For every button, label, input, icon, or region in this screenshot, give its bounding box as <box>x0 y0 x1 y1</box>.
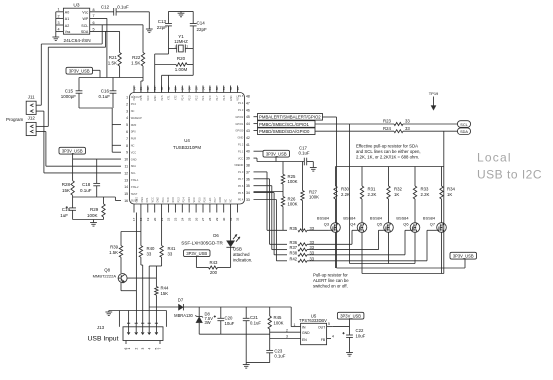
transistor Q8 MMBT2222A <box>93 268 127 284</box>
power tag 3P3V_USB top-left <box>66 67 100 77</box>
connector J13 pin arrows <box>127 323 158 334</box>
svg-text:3P3V_USB: 3P3V_USB <box>453 253 474 258</box>
wire VBUS column <box>148 266 150 323</box>
U5 pin 4 <box>327 334 334 338</box>
svg-text:56: 56 <box>188 87 192 91</box>
svg-text:62: 62 <box>146 87 150 91</box>
svg-text:GND: GND <box>219 197 222 203</box>
svg-text:GND: GND <box>238 136 244 140</box>
svg-text:J12: J12 <box>28 116 36 121</box>
svg-text:WAKEUP: WAKEUP <box>131 116 142 120</box>
capacitor C18 0.1uF <box>80 159 100 197</box>
svg-text:33: 33 <box>147 252 152 257</box>
svg-text:Vss: Vss <box>65 30 71 34</box>
svg-text:R38: R38 <box>289 250 297 255</box>
svg-text:60: 60 <box>160 87 164 91</box>
svg-text:GND: GND <box>230 95 233 101</box>
svg-text:DP0: DP0 <box>131 130 137 134</box>
wire crystal right rail <box>192 49 194 76</box>
wire D7 to U5 <box>183 307 291 327</box>
resistor R41 33 <box>160 213 176 267</box>
wire to U4 pin5 <box>112 124 121 126</box>
ground under R29 <box>90 220 97 227</box>
wire Q4 drain <box>361 232 363 273</box>
svg-text:P3.6: P3.6 <box>204 197 207 203</box>
svg-text:R41: R41 <box>168 246 176 251</box>
svg-text:Q4: Q4 <box>350 222 356 227</box>
wire SCL bottom row <box>350 263 416 265</box>
crystal Y1 12MHZ <box>169 34 194 52</box>
transistor Q6 BSS84 <box>396 216 419 233</box>
svg-text:EN: EN <box>302 338 307 342</box>
svg-text:R31: R31 <box>368 186 376 191</box>
svg-text:P1.1: P1.1 <box>238 149 244 153</box>
svg-text:1K: 1K <box>447 192 452 197</box>
svg-text:23: 23 <box>174 217 178 221</box>
svg-text:100K: 100K <box>274 321 284 326</box>
wire ground stub row <box>246 362 270 364</box>
svg-text:1000pF: 1000pF <box>61 94 77 99</box>
svg-text:R35: R35 <box>289 226 297 231</box>
net tag SCL <box>458 121 471 128</box>
connector J12 <box>26 116 48 136</box>
svg-text:27: 27 <box>201 217 205 221</box>
ground at C17 <box>310 168 317 172</box>
svg-text:51: 51 <box>222 87 226 91</box>
resistor R39 1.5K <box>109 232 123 274</box>
wire J11 pin2 to U4 pin12 <box>44 111 121 173</box>
svg-text:20: 20 <box>153 217 157 221</box>
svg-text:7: 7 <box>93 14 95 18</box>
ground at C12 <box>146 29 153 33</box>
svg-text:12MHZ: 12MHZ <box>174 39 188 44</box>
svg-text:8: 8 <box>93 8 95 12</box>
svg-text:1.5K: 1.5K <box>131 61 140 66</box>
title Local USB to I2C <box>477 151 542 182</box>
wire U3 WP to 3.3V <box>90 18 107 77</box>
wire U4 pin17 column <box>135 213 137 324</box>
U3 left pin ladder pins 1-4 <box>56 8 64 37</box>
wire U4 pin39 jog <box>254 158 258 161</box>
wire C19 R29 bottoms <box>73 219 104 221</box>
svg-text:MBRA130: MBRA130 <box>174 313 193 318</box>
ground bottom rail <box>243 363 250 369</box>
svg-text:A0: A0 <box>65 11 69 15</box>
svg-text:61: 61 <box>153 87 157 91</box>
svg-text:BSS84: BSS84 <box>343 216 356 221</box>
svg-text:25: 25 <box>187 217 191 221</box>
svg-text:200: 200 <box>210 270 218 275</box>
svg-text:49: 49 <box>236 87 240 91</box>
svg-text:2: 2 <box>57 14 59 18</box>
svg-text:SDA: SDA <box>131 164 137 168</box>
svg-text:15K: 15K <box>161 291 169 296</box>
svg-text:1uF: 1uF <box>60 213 68 218</box>
svg-text:P3.7: P3.7 <box>214 197 217 203</box>
resistor R31 2.2K <box>360 167 376 223</box>
net tag SDA <box>458 128 471 135</box>
wire XTAL1 to U4 <box>161 75 163 92</box>
svg-text:RXD: RXD <box>172 197 175 202</box>
svg-text:0.1uF: 0.1uF <box>299 151 310 156</box>
svg-text:PMBALERT/SMBALERT/GPIO2: PMBALERT/SMBALERT/GPIO2 <box>259 115 321 120</box>
wire R35 to gate <box>307 229 328 231</box>
svg-text:Local: Local <box>477 151 512 165</box>
svg-text:100K: 100K <box>288 202 298 207</box>
svg-text:26: 26 <box>194 217 198 221</box>
wire U4 pin43 to sda box <box>254 130 258 132</box>
svg-text:C20: C20 <box>225 316 233 321</box>
U3 right pin numbers 8,7,6,5 <box>93 8 95 32</box>
wire U4 pin44 to scl box <box>254 123 258 125</box>
wire Q7 drain <box>441 232 443 273</box>
svg-text:GND: GND <box>154 95 157 101</box>
svg-text:R42: R42 <box>289 256 297 261</box>
svg-text:C12: C12 <box>101 5 110 10</box>
wire ALERT drop <box>336 117 338 268</box>
wire R25 R26 tap to U4 <box>254 191 284 193</box>
svg-text:3P3V_USB: 3P3V_USB <box>62 148 83 153</box>
resistor R38 33 <box>289 250 314 256</box>
svg-text:R23: R23 <box>383 119 391 124</box>
wire gate Q6 <box>405 230 410 255</box>
svg-text:2.2K: 2.2K <box>368 192 377 197</box>
label Program <box>6 117 24 122</box>
wire R41 bottom row <box>149 265 161 267</box>
wire Q3 drain to ALERT row <box>335 232 337 268</box>
svg-text:50: 50 <box>229 87 233 91</box>
svg-text:3P3V_USB: 3P3V_USB <box>266 151 287 156</box>
wire SCL drop <box>349 124 351 264</box>
net label PMBC/SMBC/SCL/GPIO1 <box>258 121 316 128</box>
U5 pin 3 <box>270 335 301 339</box>
svg-text:TP19: TP19 <box>429 91 439 96</box>
svg-text:NC: NC <box>131 144 135 148</box>
svg-text:13: 13 <box>124 178 128 182</box>
capacitor C16 0.1uF <box>98 78 116 109</box>
wire gate Q3 <box>328 229 331 231</box>
note USB attached indication <box>233 247 252 263</box>
wire crystal top rail <box>169 10 194 12</box>
svg-text:P3.0: P3.0 <box>131 102 137 106</box>
svg-text:BSS84: BSS84 <box>396 216 409 221</box>
U4 right pins 48-33 <box>246 95 250 203</box>
svg-text:R30: R30 <box>341 186 349 191</box>
U3 pin labels inside <box>65 11 89 35</box>
svg-text:38: 38 <box>246 164 250 168</box>
wire bus left vertical B <box>47 47 49 126</box>
resistor R45 100K <box>268 307 284 363</box>
svg-text:37: 37 <box>246 170 250 174</box>
U4 left pin names <box>131 95 142 203</box>
capacitor C21 0.1uF <box>243 307 262 363</box>
capacitor C23 0.1uF <box>266 348 285 358</box>
svg-text:28: 28 <box>208 217 212 221</box>
svg-text:C17: C17 <box>299 145 307 150</box>
svg-text:P2.6: P2.6 <box>140 95 143 101</box>
svg-text:43: 43 <box>246 129 250 133</box>
svg-text:Effective pull-up resistor for: Effective pull-up resistor for SDA <box>356 144 418 149</box>
svg-text:TXD: TXD <box>167 197 170 202</box>
svg-text:TPS76333DBV: TPS76333DBV <box>299 318 327 323</box>
svg-text:46: 46 <box>246 108 250 112</box>
svg-text:SDA: SDA <box>460 130 468 134</box>
ground under C22 <box>346 353 353 357</box>
wire U4 pin45 to alert box <box>254 116 258 118</box>
svg-text:2: 2 <box>134 348 138 350</box>
svg-text:NC: NC <box>224 199 227 203</box>
svg-text:PMBC/SMBC/SCL/GPIO1: PMBC/SMBC/SCL/GPIO1 <box>259 122 310 127</box>
svg-text:64: 64 <box>132 87 136 91</box>
svg-text:41: 41 <box>246 143 250 147</box>
wire Q6 drain <box>414 232 416 263</box>
power tag 3P3V_USB u5 <box>337 312 364 326</box>
svg-text:2: 2 <box>126 102 128 106</box>
power tag 3P3V_USB right <box>450 252 477 268</box>
wire R42 to gate <box>307 260 427 262</box>
wire to U4 pin9 <box>112 151 121 153</box>
wire crystal left rail <box>155 49 169 93</box>
svg-text:19: 19 <box>146 217 150 221</box>
svg-text:16: 16 <box>124 199 128 203</box>
U4 top pin names <box>133 95 240 101</box>
svg-text:P0.4: P0.4 <box>238 198 244 202</box>
resistor R22 1.5K <box>131 53 145 78</box>
wire C12 to ground <box>116 12 149 29</box>
svg-text:6: 6 <box>93 21 95 25</box>
svg-text:SCL: SCL <box>81 24 88 28</box>
svg-text:VCC: VCC <box>151 197 154 202</box>
svg-text:0.1uF: 0.1uF <box>274 353 285 358</box>
svg-text:P2.3: P2.3 <box>188 95 191 101</box>
svg-text:WP: WP <box>83 17 89 21</box>
svg-text:PUR: PUR <box>131 137 137 141</box>
svg-text:0.1uF: 0.1uF <box>98 94 110 99</box>
svg-text:ALERT line can be: ALERT line can be <box>313 278 349 283</box>
svg-text:55: 55 <box>194 87 198 91</box>
svg-text:and SCL lines can be either op: and SCL lines can be either open, <box>356 149 421 154</box>
svg-text:30: 30 <box>222 217 226 221</box>
svg-text:C18: C18 <box>82 182 91 187</box>
connector J13 header <box>88 325 119 342</box>
svg-text:P1.3: P1.3 <box>238 108 244 112</box>
wire U3 Vcc to C12 <box>90 11 114 13</box>
svg-text:44: 44 <box>246 122 250 126</box>
svg-text:P2.7: P2.7 <box>133 95 136 101</box>
svg-text:3W: 3W <box>205 320 211 325</box>
wire U4 pin to R35 <box>254 172 288 230</box>
svg-text:Q5: Q5 <box>377 222 382 227</box>
svg-text:VCC: VCC <box>147 95 150 100</box>
svg-text:R33: R33 <box>421 186 429 191</box>
svg-text:6: 6 <box>124 348 128 350</box>
transistor Q3 BSS84 <box>317 216 340 233</box>
svg-text:VCC: VCC <box>193 197 196 202</box>
svg-text:53: 53 <box>208 87 212 91</box>
svg-text:22: 22 <box>167 217 171 221</box>
wire R38 to gate <box>307 254 405 256</box>
svg-text:R44: R44 <box>161 285 169 290</box>
note effective pull-up resistor <box>356 144 421 160</box>
capacitor C15 1000pF <box>61 78 83 109</box>
svg-text:32: 32 <box>236 217 240 221</box>
IC U3 24LC64-I/SN EEPROM <box>63 3 89 35</box>
wire J12 pin2 to U4 pin11 <box>46 132 121 167</box>
wire reset row to U4 pin16 <box>73 197 121 201</box>
power tag 3P3V_USB left <box>59 147 86 159</box>
svg-text:USB: USB <box>233 247 242 252</box>
wire U4 pin to R42 <box>254 200 288 261</box>
svg-text:XTAL2: XTAL2 <box>131 185 139 189</box>
resistor R36 33 <box>289 240 314 246</box>
connector J13 pin numbers <box>124 341 162 350</box>
svg-text:U3: U3 <box>73 3 79 9</box>
resistor R34 1K <box>440 167 456 223</box>
svg-text:Pull-up resistor for: Pull-up resistor for <box>313 273 348 278</box>
svg-text:NC: NC <box>230 199 233 203</box>
svg-text:D6: D6 <box>213 233 219 238</box>
svg-text:indication.: indication. <box>233 258 252 263</box>
svg-text:54: 54 <box>201 87 205 91</box>
wire R43 to LED <box>218 267 231 269</box>
svg-text:22pF: 22pF <box>157 25 168 30</box>
svg-text:15K: 15K <box>62 188 70 193</box>
IC U4 TUSB3210PM body <box>130 93 245 205</box>
svg-text:3P3V_USB: 3P3V_USB <box>186 251 207 256</box>
wire Q8 base to R44 <box>127 277 156 279</box>
svg-text:BSS84: BSS84 <box>370 216 383 221</box>
svg-text:P2.0: P2.0 <box>209 95 212 101</box>
capacitor C13 22pF <box>157 11 172 48</box>
svg-text:VREND: VREND <box>234 163 243 167</box>
wire R24 to SDA tag <box>403 130 458 132</box>
svg-text:100K: 100K <box>87 213 98 218</box>
svg-text:PMBD/SMBD/SDA/GPIO0: PMBD/SMBD/SDA/GPIO0 <box>259 129 310 134</box>
svg-text:24: 24 <box>181 217 185 221</box>
svg-text:1.5K: 1.5K <box>109 250 118 255</box>
svg-text:29: 29 <box>215 217 219 221</box>
wire 3.3V rail <box>79 77 143 79</box>
svg-text:40: 40 <box>246 150 250 154</box>
svg-text:TUSB3210PM: TUSB3210PM <box>173 145 201 150</box>
svg-text:GND: GND <box>302 331 310 335</box>
svg-text:C15: C15 <box>65 88 74 93</box>
wire ground row J13 <box>109 311 167 327</box>
svg-text:2.2K: 2.2K <box>421 192 430 197</box>
wire SDA net vertical <box>105 31 107 47</box>
svg-text:C13: C13 <box>158 19 167 24</box>
capacitor C22 10uF <box>342 327 365 353</box>
resistor R25 100K <box>281 162 297 192</box>
svg-text:switched on or off.: switched on or off. <box>313 284 348 289</box>
resistor R21 1.5K <box>108 53 122 78</box>
svg-text:BSS84: BSS84 <box>317 216 330 221</box>
resistor R28 15K <box>62 159 75 197</box>
wire gate Q7 <box>427 230 437 260</box>
svg-text:9: 9 <box>126 151 128 155</box>
U3 value label 24LC64-I/SN <box>64 38 91 43</box>
svg-text:Q8: Q8 <box>104 268 110 273</box>
wire U4 pin to R37 <box>254 186 288 250</box>
svg-text:0.1uF: 0.1uF <box>250 321 261 326</box>
wire U3 SDA to R21 <box>90 31 120 52</box>
svg-text:52: 52 <box>215 87 219 91</box>
svg-text:XTAL1: XTAL1 <box>131 178 139 182</box>
resistor R27 100K <box>301 162 319 231</box>
svg-text:SCL: SCL <box>131 171 137 175</box>
svg-text:A2: A2 <box>65 24 69 28</box>
svg-text:R24: R24 <box>383 126 391 131</box>
capacitor C19 1uF <box>60 197 76 220</box>
wire Q5 drain <box>388 232 390 263</box>
wire SDA drop <box>443 131 445 273</box>
svg-text:2.2K, 1K, or 2.2K//1K = 688 oh: 2.2K, 1K, or 2.2K//1K = 688 ohm. <box>356 155 419 160</box>
svg-text:0.1uF: 0.1uF <box>80 188 92 193</box>
svg-text:P1.0: P1.0 <box>238 170 244 174</box>
svg-text:C21: C21 <box>250 315 258 320</box>
svg-text:4: 4 <box>147 348 151 350</box>
svg-text:FB: FB <box>321 338 326 342</box>
wire 3.3V to U4 pin10 <box>73 158 121 160</box>
svg-text:63: 63 <box>139 87 143 91</box>
svg-text:XT2: XT2 <box>175 95 178 100</box>
svg-text:DM0: DM0 <box>131 123 137 127</box>
U4 left pins 1-16 <box>124 96 128 204</box>
transistor Q4 BSS84 <box>343 216 366 233</box>
svg-text:33: 33 <box>405 126 410 131</box>
LED D6 SSF-LXH305GD-TR <box>181 233 240 247</box>
zener diode D8 7.5V 3W <box>195 307 213 334</box>
svg-text:0.1uF: 0.1uF <box>117 5 129 10</box>
note pull-up resistor alert <box>313 273 349 289</box>
wire Q8 emitter loop <box>121 283 136 291</box>
svg-text:7: 7 <box>158 348 162 350</box>
svg-text:P3.5: P3.5 <box>198 197 201 203</box>
svg-text:48: 48 <box>246 95 250 99</box>
net label PMBALERT/SMBALERT/GPIO2 <box>258 114 323 121</box>
svg-text:3P3V_USB: 3P3V_USB <box>69 68 90 73</box>
svg-text:R40: R40 <box>147 246 155 251</box>
svg-text:SDA: SDA <box>81 30 89 34</box>
svg-text:11: 11 <box>124 165 128 169</box>
svg-text:DM2: DM2 <box>157 197 160 203</box>
svg-text:R20: R20 <box>177 56 186 61</box>
IC U5 TPS76333DBV <box>299 313 327 344</box>
wire SDA line to R24 <box>315 130 394 132</box>
U4 right pin names <box>234 94 244 202</box>
transistor Q7 BSS84 <box>423 216 446 233</box>
svg-text:DM1: DM1 <box>141 197 144 203</box>
svg-text:TEST: TEST <box>131 192 138 196</box>
wire VBUS to D7 <box>149 306 178 308</box>
svg-text:R21: R21 <box>109 55 118 60</box>
svg-text:3: 3 <box>126 109 128 113</box>
svg-text:Q6: Q6 <box>403 222 408 227</box>
svg-text:22pF: 22pF <box>197 27 208 32</box>
svg-text:GPIO2: GPIO2 <box>235 115 243 119</box>
wire U4 pin31 to LED <box>230 213 232 241</box>
svg-text:MMBT2222A: MMBT2222A <box>93 274 117 279</box>
power tag 3P3V_USB led <box>184 250 211 268</box>
wire XTAL2 to U4 <box>168 75 170 92</box>
svg-text:GND: GND <box>188 197 191 203</box>
svg-text:4: 4 <box>57 28 59 32</box>
svg-text:R39: R39 <box>110 244 118 249</box>
wire SCL line to R23 <box>315 123 394 125</box>
resistor R40 33 <box>139 213 155 324</box>
wire gate Q5 <box>379 230 384 249</box>
svg-text:39: 39 <box>246 157 250 161</box>
